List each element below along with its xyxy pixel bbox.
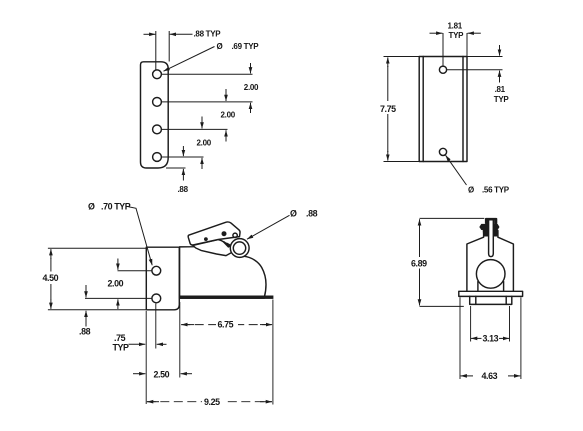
svg-text:4.50: 4.50 (43, 273, 59, 283)
extension line bottom 6.89 (420, 305, 464, 307)
dimension 6.89 (411, 219, 427, 305)
extension line top 6.89 (420, 217, 485, 219)
tube inner wall left (475, 296, 477, 304)
extension line from hole H1 (162, 73, 253, 75)
dimension 2.00 third (197, 117, 212, 170)
hole H6 (439, 148, 446, 155)
leader and label diameter .88 (247, 209, 318, 240)
latch slot dark (221, 241, 230, 248)
extension line from hole H8 (85, 297, 152, 299)
extension line body left edge down (179, 302, 181, 378)
rivet circle 3 (233, 233, 237, 237)
svg-text:Ø: Ø (88, 202, 95, 212)
svg-text:2.00: 2.00 (197, 138, 212, 147)
latch lever (188, 222, 240, 245)
extension line top edge right (467, 56, 503, 58)
extension line plate bottom right (166, 167, 186, 169)
dimension 1.81 TYP (430, 22, 481, 40)
svg-text:.88: .88 (306, 209, 318, 219)
svg-text:Ø: Ø (290, 209, 297, 219)
dimension .88 lower hole (79, 285, 91, 336)
hole H7 (152, 266, 161, 275)
svg-text:7.75: 7.75 (380, 104, 396, 114)
plate outline (141, 62, 169, 168)
neck side right (503, 282, 505, 292)
leader and label hole diameter .69 TYP (164, 42, 260, 71)
svg-text:3.13: 3.13 (483, 333, 499, 343)
svg-text:2.50: 2.50 (154, 369, 170, 379)
svg-text:9.25: 9.25 (204, 397, 220, 407)
svg-text:.69 TYP: .69 TYP (232, 42, 260, 51)
extension line flange left down (459, 297, 461, 379)
dimension 6.75 (181, 319, 272, 330)
svg-text:1.81: 1.81 (448, 22, 463, 31)
svg-text:TYP: TYP (449, 31, 465, 40)
extension line bottom 4.50 (48, 309, 146, 311)
dimension .81 TYP (494, 45, 510, 104)
svg-text:.75: .75 (114, 333, 126, 343)
tube below flange (470, 296, 512, 304)
dimension .88 TYP top (144, 29, 222, 38)
svg-text:.88: .88 (178, 185, 189, 194)
svg-text:.88: .88 (79, 326, 91, 336)
rivet dot 1 (204, 237, 208, 241)
extension line plate left edge down (145, 311, 147, 404)
extension line from hole H5 right (447, 69, 503, 71)
dimension 4.50 (43, 249, 59, 309)
knob cap slot (489, 220, 495, 224)
extension line hole center top (155, 31, 157, 70)
svg-text:Ø: Ø (217, 42, 223, 51)
neck side left (477, 282, 479, 292)
hole H2 (153, 98, 162, 107)
svg-text:TYP: TYP (494, 95, 510, 104)
extension line tube left down (470, 306, 472, 342)
svg-text:2.00: 2.00 (221, 110, 236, 119)
latch pin (489, 220, 494, 257)
extension line from hole H4 (162, 156, 204, 158)
dimension 4.63 (461, 371, 521, 381)
channel outline (419, 57, 467, 162)
hole H1 (153, 70, 162, 79)
dimension 2.00 holes (108, 259, 124, 310)
dimension 3.13 (471, 333, 509, 343)
pivot boss outer ring (230, 239, 249, 258)
extension line channel edge up (466, 33, 468, 56)
hole H3 (153, 125, 162, 134)
extension line bottom left (384, 161, 420, 163)
extension line hole center down (155, 304, 157, 349)
svg-text:.88 TYP: .88 TYP (194, 29, 222, 38)
dimension 2.00 first (244, 63, 259, 113)
extension line plate edge top (168, 31, 170, 62)
svg-text:.81: .81 (495, 85, 506, 94)
extension line from hole H2 (162, 101, 253, 103)
svg-text:4.63: 4.63 (482, 371, 498, 381)
extension line top left (384, 56, 420, 58)
hole H8 (152, 294, 161, 303)
extension line flange right down (520, 297, 522, 379)
dimension 9.25 (147, 396, 272, 407)
latch plate (193, 240, 234, 256)
extension line base right end down (272, 300, 274, 405)
ball socket circle (476, 260, 505, 289)
hole H4 (153, 153, 162, 162)
svg-text:TYP: TYP (113, 342, 130, 352)
extension line from hole H7 (118, 270, 153, 272)
flange plate (459, 291, 523, 296)
tube inner wall right (505, 296, 507, 304)
svg-text:2.00: 2.00 (244, 83, 259, 92)
leader and label hole diameter .70 TYP (88, 202, 152, 266)
extension line tube right down (509, 306, 511, 342)
dimension 2.00 second (221, 89, 236, 142)
leader and label hole diameter .56 TYP (446, 155, 510, 194)
pivot hole inner (233, 242, 245, 254)
knob bump row wide (479, 224, 499, 230)
bracket plate outline (146, 247, 179, 310)
svg-text:2.00: 2.00 (108, 279, 124, 289)
knob bump row narrow (483, 230, 498, 237)
extension line hole center up (442, 33, 444, 66)
extension line top 4.50 (48, 247, 146, 249)
dimension .75 TYP (113, 333, 167, 353)
svg-text:6.75: 6.75 (218, 320, 234, 330)
dimension 7.75 (380, 57, 396, 160)
dimension .88 bottom (178, 146, 189, 194)
svg-text:6.89: 6.89 (411, 258, 427, 268)
svg-text:.56 TYP: .56 TYP (482, 185, 510, 194)
rivet dot 2 (222, 231, 227, 236)
knob top cap (485, 218, 497, 224)
channel bend line right (462, 57, 464, 162)
svg-text:.70 TYP: .70 TYP (101, 202, 131, 212)
channel bend line left (422, 57, 424, 162)
hole H5 (439, 66, 446, 73)
bell housing outline (467, 231, 514, 292)
extension line from hole H3 (162, 128, 228, 130)
svg-text:Ø: Ø (468, 185, 474, 194)
coupler body outline (180, 241, 266, 298)
base plate bar (180, 296, 274, 299)
dimension 2.50 (133, 369, 192, 379)
